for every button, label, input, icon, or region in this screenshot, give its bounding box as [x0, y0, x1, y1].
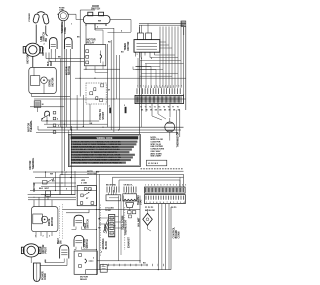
switch pins column — [53, 111, 56, 114]
wire lcluster verticals — [55, 172, 57, 191]
wire motor drop — [37, 107, 39, 112]
wire door switch down — [85, 26, 87, 45]
svg-text:2: 2 — [150, 202, 151, 204]
wire left vertical x80 — [79, 10, 81, 97]
motor relay box — [85, 45, 106, 66]
wire lcluster h1 — [33, 171, 99, 173]
aux box right of relay2 — [100, 265, 107, 273]
legend box border — [69, 134, 141, 166]
wire below relay — [84, 68, 120, 70]
svg-text:SWITCH: SWITCH — [88, 219, 90, 228]
svg-text:1: 1 — [173, 185, 174, 187]
svg-text:1: 1 — [137, 54, 138, 56]
wire lcluster h3 — [33, 182, 76, 184]
wire fuse to doorswitch — [70, 13, 76, 15]
svg-text:3: 3 — [151, 87, 152, 89]
motor protector M1 — [23, 43, 42, 56]
svg-text:L1 N 3 4 5: L1 N 3 4 5 — [148, 162, 159, 165]
svg-text:2: 2 — [44, 44, 45, 46]
wire below lower box h1 — [63, 209, 141, 211]
wire capsule pair feet — [72, 229, 77, 231]
wire lcluster h2 — [35, 176, 89, 178]
svg-text:THERMISTOR: THERMISTOR — [177, 131, 180, 147]
svg-text:1: 1 — [176, 85, 177, 87]
wire door switch right — [110, 19, 131, 21]
junction dots 2 — [96, 209, 97, 210]
svg-text:EXHAUST: EXHAUST — [127, 237, 130, 248]
svg-text:7: 7 — [164, 185, 165, 187]
extra dots left band — [66, 171, 67, 172]
relay pins — [86, 50, 89, 53]
wire bottom mid verticals — [118, 196, 120, 261]
svg-text:CORD: CORD — [45, 273, 47, 280]
svg-text:T5: T5 — [98, 228, 100, 230]
svg-text:CONN: CONN — [179, 231, 181, 238]
svg-text:5: 5 — [124, 105, 125, 107]
capacitor cap2 — [65, 38, 73, 49]
svg-text:2: 2 — [148, 87, 149, 89]
svg-text:9 GROUND STRAP TO CABINET AND: 9 GROUND STRAP TO CABINET AND MOTOR FRAM… — [71, 161, 122, 164]
svg-text:THERMOSTAT: THERMOSTAT — [124, 219, 127, 235]
wire protector to motor — [32, 56, 34, 67]
svg-text:6: 6 — [66, 189, 67, 191]
svg-text:OR BU YL: OR BU YL — [124, 184, 134, 186]
bconn hatched row — [145, 187, 186, 193]
svg-text:PROT: PROT — [45, 246, 48, 253]
wire timer pin drops — [137, 58, 139, 88]
tb connector box — [135, 95, 184, 103]
legend title — [71, 136, 139, 139]
svg-text:P4 P5: P4 P5 — [171, 206, 177, 209]
wire lcluster h4 — [30, 190, 97, 192]
svg-text:3: 3 — [151, 185, 152, 187]
capacitor cap1 — [50, 38, 58, 49]
svg-text:M: M — [108, 89, 110, 91]
wire motor internal — [33, 67, 35, 75]
svg-text:5: 5 — [58, 125, 59, 127]
svg-text:DOOR: DOOR — [92, 6, 99, 8]
wire below legend h2 — [60, 173, 184, 175]
dashed caption line — [141, 168, 184, 170]
svg-text:BOARD: BOARD — [175, 230, 178, 239]
wire cluster h3 — [38, 129, 181, 131]
door switch body — [83, 12, 110, 26]
console border left — [139, 25, 141, 33]
wire left pair x77 x83 — [76, 95, 78, 130]
svg-text:START: START — [102, 111, 105, 119]
svg-text:6 CYCLING THERMOSTAT TO HEAT: 6 CYCLING THERMOSTAT TO HEAT RELAY COIL … — [71, 153, 121, 156]
svg-text:5: 5 — [185, 185, 186, 187]
wire relay verticals — [107, 44, 109, 127]
wire hi-limit drop — [147, 209, 149, 213]
lower motor box — [31, 207, 58, 232]
svg-text:3 TIMER TO MOTOR RELAY COIL T: 3 TIMER TO MOTOR RELAY COIL TERMINAL 2 R… — [71, 146, 119, 149]
cabinet dashed lines — [100, 205, 102, 257]
wire bus h1 — [30, 106, 64, 108]
power cord lower — [33, 263, 40, 282]
svg-text:T7: T7 — [172, 107, 174, 109]
svg-text:2: 2 — [176, 185, 177, 187]
centrifugal switch S1 — [45, 111, 50, 116]
svg-text:1: 1 — [143, 85, 144, 87]
svg-text:8: 8 — [167, 185, 168, 187]
svg-text:3: 3 — [141, 58, 142, 60]
connector pin ticks — [136, 88, 138, 94]
wire cluster h2 — [42, 120, 100, 122]
svg-text:WHT: WHT — [51, 60, 53, 66]
fuse F1 — [58, 11, 68, 21]
svg-text:T6: T6 — [168, 107, 170, 109]
svg-text:POWER: POWER — [29, 13, 31, 22]
svg-text:MOTOR: MOTOR — [51, 77, 54, 86]
svg-text:T1: T1 — [145, 107, 147, 109]
power cord plug — [33, 12, 50, 25]
wire lower connect — [30, 257, 32, 263]
svg-text:HI-LIMIT: HI-LIMIT — [139, 217, 141, 227]
wire bconn verticals — [157, 204, 159, 270]
svg-text:7: 7 — [167, 202, 168, 204]
plain box BL — [106, 195, 121, 201]
console corner box — [181, 21, 186, 27]
svg-text:7 CONTROL BOARD P3 TO THERMIS: 7 CONTROL BOARD P3 TO THERMISTOR LEADS G… — [71, 156, 122, 159]
svg-text:SWITCH: SWITCH — [69, 66, 71, 75]
svg-text:8 NEUTRAL BUS TO MOTOR AND TI: 8 NEUTRAL BUS TO MOTOR AND TIMER COMMON … — [71, 159, 120, 162]
svg-text:WIRING CODE: WIRING CODE — [97, 138, 113, 140]
start winding box — [34, 101, 41, 108]
svg-text:3: 3 — [120, 199, 121, 201]
motor relay 2 box — [74, 251, 97, 274]
wire below legend h1 — [96, 170, 184, 172]
svg-text:RELAY: RELAY — [87, 41, 95, 44]
svg-text:MOTOR: MOTOR — [33, 182, 36, 191]
wire relay2 right — [97, 260, 140, 262]
svg-text:1: 1 — [140, 85, 141, 87]
svg-text:SWITCH: SWITCH — [87, 239, 89, 248]
svg-text:2: 2 — [43, 236, 44, 238]
wire motorbox top leads — [33, 200, 35, 207]
wire startbox drop — [89, 104, 91, 122]
svg-text:16022746: 16022746 — [87, 173, 97, 176]
wire right bundle verticals — [159, 27, 161, 89]
capsule switch B — [74, 235, 84, 246]
svg-text:MOTOR: MOTOR — [43, 47, 45, 56]
svg-text:BLOCK: BLOCK — [106, 241, 108, 250]
drive motor box — [29, 67, 57, 93]
svg-text:1: 1 — [173, 87, 174, 89]
wire timer top — [139, 27, 141, 33]
svg-text:THERMAL: THERMAL — [30, 120, 33, 132]
switch arm hatch — [103, 220, 108, 233]
svg-text:2: 2 — [97, 27, 98, 29]
wire plug-left lead — [35, 25, 37, 44]
svg-text:TERM: TERM — [105, 224, 107, 231]
svg-text:1: 1 — [137, 85, 138, 87]
wire below tbconn — [151, 104, 153, 116]
svg-text:6: 6 — [161, 87, 162, 89]
bconn pin row 2 — [145, 195, 186, 204]
wire thermostat tail — [129, 208, 131, 211]
svg-text:1 CHECK LINE SWITCH TO THERMA: 1 CHECK LINE SWITCH TO THERMAL FUSE CIRC… — [71, 140, 121, 143]
wire legend left stubs — [61, 130, 63, 174]
svg-text:9: 9 — [170, 87, 171, 89]
svg-text:2: 2 — [93, 258, 94, 260]
svg-text:3: 3 — [180, 202, 181, 204]
svg-text:2 1 BK: 2 1 BK — [81, 182, 88, 184]
terminal strip — [109, 215, 115, 237]
switch contact lc — [42, 181, 47, 184]
svg-text:5: 5 — [151, 58, 152, 60]
hi-limit body — [143, 213, 153, 225]
wire above startbox — [75, 77, 186, 79]
svg-text:4 MOTOR RELAY CONTACT TO DRIV: 4 MOTOR RELAY CONTACT TO DRIVE MOTOR RUN… — [71, 148, 120, 151]
notes text block — [150, 137, 164, 158]
svg-text:5: 5 — [160, 202, 161, 204]
wire below motor bus — [32, 96, 71, 98]
wire relay h-links — [94, 66, 96, 73]
svg-text:MOTOR: MOTOR — [51, 217, 54, 226]
svg-text:6: 6 — [91, 189, 92, 191]
svg-text:THERMAL: THERMAL — [32, 157, 35, 169]
wire end blob A — [109, 108, 111, 114]
capsule switch A — [74, 215, 84, 226]
wire bundle h-bottom — [132, 67, 134, 70]
wire end blob B — [125, 107, 127, 113]
svg-text:1: 1 — [146, 202, 147, 204]
svg-text:2: 2 — [148, 185, 149, 187]
model box — [146, 160, 166, 166]
wire bl box leads — [109, 197, 119, 199]
svg-text:T2: T2 — [149, 107, 151, 109]
svg-text:1: 1 — [173, 202, 174, 204]
svg-text:BR: BR — [45, 38, 48, 42]
wire plug-right lead — [45, 26, 47, 35]
wire right mid verticals — [179, 110, 181, 137]
lower motor protector M2 — [21, 244, 41, 257]
svg-text:5: 5 — [101, 252, 102, 254]
wire tbconn diag — [158, 114, 166, 119]
svg-text:SEE CHART: SEE CHART — [150, 155, 162, 158]
legend rows — [71, 140, 137, 164]
svg-text:5: 5 — [157, 87, 158, 89]
svg-text:6: 6 — [161, 185, 162, 187]
svg-text:MOTOR: MOTOR — [127, 41, 130, 50]
svg-text:P1 P2 P3: P1 P2 P3 — [145, 207, 153, 209]
wire below legend v — [96, 171, 98, 275]
svg-text:BK WH RD: BK WH RD — [106, 184, 117, 186]
svg-text:8: 8 — [170, 202, 171, 204]
svg-text:T3: T3 — [154, 107, 156, 109]
svg-text:SWITCH: SWITCH — [91, 9, 101, 11]
svg-text:1: 1 — [178, 85, 179, 87]
svg-text:4: 4 — [109, 105, 110, 108]
svg-text:3: 3 — [49, 236, 50, 238]
wire fuse lead down — [61, 21, 63, 130]
dashed boundary right of motor — [59, 206, 61, 238]
wire cap2 long drops — [65, 53, 67, 128]
wire bottom long — [86, 269, 172, 271]
svg-text:9: 9 — [170, 185, 171, 187]
pin ticks groups — [106, 187, 108, 193]
svg-text:2: 2 — [177, 202, 178, 204]
svg-text:BLK: BLK — [39, 188, 44, 190]
svg-text:1: 1 — [35, 236, 36, 238]
console border top — [139, 23, 186, 25]
wire termstrip leads — [99, 217, 108, 219]
svg-text:1: 1 — [145, 185, 146, 187]
svg-text:1: 1 — [165, 85, 166, 87]
wire left long pair — [71, 126, 73, 195]
wire lower motor leads — [35, 232, 37, 238]
start switch lower box — [77, 186, 96, 206]
belt switch capsule — [60, 245, 69, 259]
thermistor body — [165, 122, 175, 132]
wire x140 vertical — [139, 196, 141, 264]
svg-text:2 THERMAL FUSE TO TIMER TERMI: 2 THERMAL FUSE TO TIMER TERMINAL L1 WIRE… — [71, 143, 122, 146]
wire timer-to-bus — [160, 41, 166, 43]
svg-text:RELAY: RELAY — [80, 278, 88, 281]
relay2 pins — [79, 254, 82, 257]
svg-text:1: 1 — [71, 24, 72, 26]
timer body — [134, 40, 160, 53]
console border right — [185, 27, 187, 110]
svg-text:8: 8 — [167, 87, 168, 89]
svg-text:1: 1 — [162, 85, 163, 87]
wire lower-left risers — [74, 171, 76, 195]
small pins BM — [128, 211, 131, 214]
wire cap bus — [46, 58, 84, 60]
svg-text:1: 1 — [145, 85, 146, 87]
svg-text:5: 5 — [157, 185, 158, 187]
wire mid h-links — [95, 28, 114, 30]
svg-text:1: 1 — [145, 87, 146, 89]
wire bottom bus1 — [28, 194, 76, 196]
svg-text:6: 6 — [163, 202, 164, 204]
relay contact — [100, 55, 101, 59]
aux connector small — [46, 191, 51, 196]
svg-text:7: 7 — [164, 87, 165, 89]
wire thermistor drop — [169, 136, 171, 141]
thermostat box wavy — [123, 194, 137, 201]
svg-text:HTR: HTR — [81, 180, 86, 182]
svg-text:BK WH RD: BK WH RD — [145, 210, 156, 212]
svg-text:MOTOR: MOTOR — [27, 54, 30, 63]
junction dots — [61, 127, 62, 128]
svg-text:3: 3 — [153, 202, 154, 204]
wire below lower box h2 — [66, 212, 89, 214]
svg-text:1: 1 — [181, 85, 182, 87]
svg-text:T5: T5 — [163, 107, 165, 109]
svg-text:T0: T0 — [177, 107, 179, 109]
svg-text:T0: T0 — [140, 107, 142, 109]
start switch box — [86, 83, 106, 104]
